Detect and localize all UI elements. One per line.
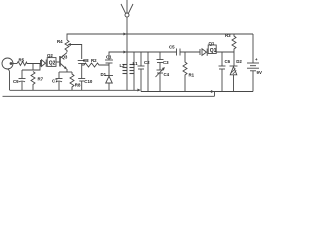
svg-text:C10: C10 xyxy=(84,79,93,84)
svg-text:9V: 9V xyxy=(257,70,262,75)
svg-text:C3: C3 xyxy=(163,60,169,65)
svg-text:L2: L2 xyxy=(120,63,126,68)
svg-text:C2: C2 xyxy=(144,60,150,65)
svg-text:R5: R5 xyxy=(19,58,25,63)
svg-text:R4: R4 xyxy=(57,39,63,44)
svg-text:Q1: Q1 xyxy=(209,41,215,46)
svg-text:Q2: Q2 xyxy=(47,53,53,58)
svg-text:Q2: Q2 xyxy=(49,61,56,67)
svg-text:D2: D2 xyxy=(236,59,242,64)
svg-text:L1: L1 xyxy=(133,61,139,66)
svg-text:+: + xyxy=(255,57,258,62)
svg-text:D1: D1 xyxy=(101,72,107,77)
svg-text:C7: C7 xyxy=(52,79,58,84)
svg-text:C4: C4 xyxy=(164,72,170,77)
svg-text:R2: R2 xyxy=(91,58,97,63)
svg-text:C5: C5 xyxy=(169,45,175,50)
svg-text:C1: C1 xyxy=(106,55,112,60)
svg-text:Q1: Q1 xyxy=(210,48,217,54)
svg-text:Q3: Q3 xyxy=(62,55,68,60)
svg-text:R3: R3 xyxy=(225,33,231,38)
svg-text:C8: C8 xyxy=(83,58,89,63)
svg-text:R7: R7 xyxy=(38,77,44,82)
svg-text:C9: C9 xyxy=(13,79,19,84)
svg-text:R1: R1 xyxy=(189,73,195,78)
svg-text:R8: R8 xyxy=(75,83,81,88)
svg-text:C6: C6 xyxy=(225,59,231,64)
